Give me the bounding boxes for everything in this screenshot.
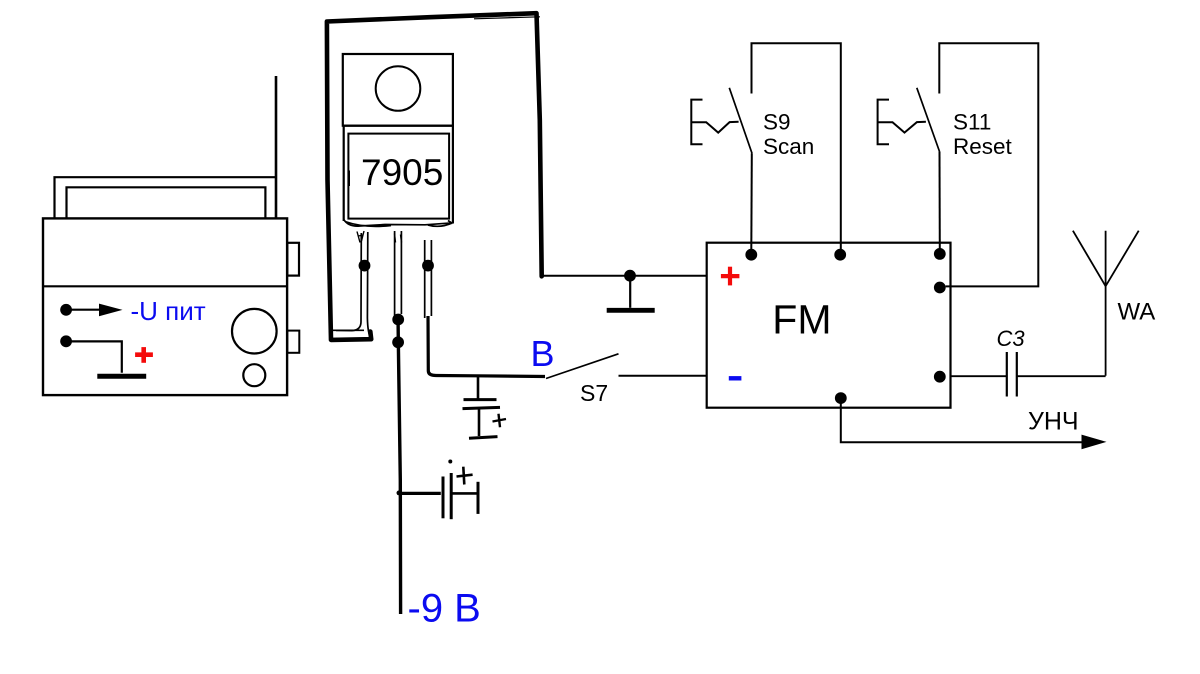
S9 pushbutton bracket (691, 100, 702, 145)
radio antenna rod (275, 76, 278, 219)
wire: FM to C3 (951, 375, 1007, 377)
junction dot pin 2 lower (392, 336, 404, 348)
radio handle outer (55, 177, 277, 218)
svg-text:-9 В: -9 В (408, 587, 481, 631)
label + (red, FM) (721, 267, 740, 286)
switch S9 blade (729, 88, 752, 154)
capacitor C3 (1007, 352, 1017, 397)
FM pin dot top-middle (834, 249, 846, 261)
stray pen tick left of 7905 (348, 171, 350, 187)
wire: ground loop around regulator 7905 (327, 13, 542, 340)
radio small knob (243, 364, 265, 386)
wire: S11 loop (939, 43, 1038, 286)
wire: pin 2 down to -9V node (398, 314, 401, 614)
wire: pin1 link to ground loop (333, 329, 364, 331)
FM block (707, 243, 951, 408)
label + of C1 (hand-drawn) (493, 414, 507, 427)
pin lead squiggles at package bottom (357, 231, 402, 243)
radio handle inner (67, 187, 266, 218)
junction dot pin 1 (359, 260, 371, 272)
FM pin dot top-right (934, 248, 946, 260)
regulator pin 2 (input) (395, 231, 402, 316)
capacitor C2 (input, polarized, battery side) (400, 460, 479, 520)
S9 pushbutton spring (691, 122, 738, 133)
svg-text:C3: C3 (997, 326, 1026, 351)
wire: regulator loop to FM plus (542, 275, 707, 277)
regulator pin 1 (GND) (336, 232, 371, 338)
wire: C3 to antenna (1017, 375, 1106, 377)
junction dot pin 2 upper (392, 314, 404, 326)
capacitor C1 (output filter, polarized) (463, 377, 501, 438)
svg-text:S7: S7 (580, 380, 608, 406)
radio terminal dot (+) (60, 335, 72, 347)
ground (radio) (97, 374, 146, 379)
regulator body inner (348, 134, 449, 219)
antenna WA (1073, 231, 1139, 376)
svg-text:УНЧ: УНЧ (1028, 408, 1079, 436)
S11 pushbutton spring (878, 122, 926, 133)
radio case (43, 218, 287, 395)
regulator body bottom edge (hand-drawn) (344, 220, 453, 227)
svg-text:S11: S11 (953, 110, 991, 135)
FM pin dot top-left (745, 249, 757, 261)
wire: S11 blade to FM (939, 152, 941, 250)
junction dot at -9V node (397, 491, 402, 496)
arrow -U pit (66, 304, 122, 317)
radio tuning knob (232, 309, 277, 354)
wire: S9 blade to FM (750, 153, 753, 250)
label - (blue, FM) (729, 376, 742, 380)
ground (supply) (607, 276, 655, 311)
regulator U1 7905: tab (343, 54, 453, 126)
svg-text:S9: S9 (763, 110, 791, 135)
svg-text:FM: FM (772, 297, 831, 343)
svg-text:Reset: Reset (953, 134, 1013, 159)
radio terminal dot (-U pit) (60, 304, 72, 316)
svg-text:-U пит: -U пит (131, 296, 206, 326)
FM pin dot right-upper (934, 282, 946, 294)
FM pin dot right-lower (934, 371, 946, 383)
wire: pin 3 to switch S7 (428, 316, 545, 377)
svg-text:WA: WA (1118, 299, 1156, 326)
wire: S7 contact to FM minus (619, 375, 707, 377)
regulator body outer (344, 126, 453, 224)
wire: + terminal to ground (66, 341, 122, 372)
switch S11 blade (917, 88, 940, 152)
label + (red, radio) (135, 347, 153, 363)
radio side knob upper (287, 243, 299, 276)
wire: FM output down and right (841, 398, 1082, 442)
junction dot at supply ground (624, 270, 636, 282)
radio case divider (43, 285, 287, 287)
svg-text:В: В (531, 333, 555, 374)
junction dot pin 3 (422, 260, 434, 272)
label + of C2 (hand-drawn) (457, 467, 473, 485)
svg-text:Scan: Scan (763, 134, 814, 159)
arrowhead УНЧ output (1082, 435, 1107, 450)
FM pin dot bottom (835, 392, 847, 404)
svg-text:7905: 7905 (361, 152, 443, 193)
radio side knob lower (287, 331, 299, 353)
S11 pushbutton bracket (878, 100, 889, 145)
regulator mounting hole (376, 66, 421, 111)
regulator pin 3 (output) (425, 240, 432, 318)
wire: S9 loop (752, 43, 841, 250)
switch S7 blade (546, 354, 619, 379)
